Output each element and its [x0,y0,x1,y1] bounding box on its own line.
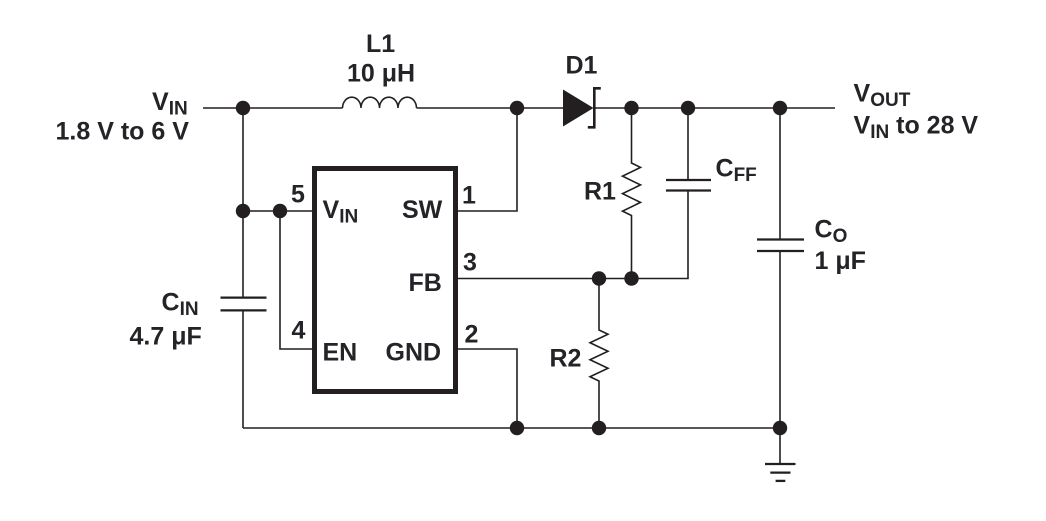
wire: CIN bottom to ground rail [242,310,244,428]
pin number 3 [463,249,477,277]
label: input voltage range [56,118,190,146]
wire: EN branch (node to pin 4) [280,211,312,349]
svg-text:1.8 V to 6 V: 1.8 V to 6 V [56,118,190,146]
label: D1 designator [566,52,598,80]
pin number 1 [462,182,476,210]
svg-text:VIN: VIN [152,88,188,120]
wire: VIN vertical drop (x=243) [242,108,244,297]
label: VIN net [152,88,188,120]
resistor R2 [590,279,608,429]
svg-text:VIN to 28 V: VIN to 28 V [854,112,979,144]
pin label: VIN (pin 5) [323,196,359,228]
ground symbol [765,428,796,481]
node: SW junction top [510,101,524,115]
label: CIN designator [162,289,199,321]
wire: pin 5 VIN stub [243,210,312,212]
pin label: GND (pin 2) [386,339,442,367]
svg-text:3: 3 [463,249,477,277]
label: CO value 1 uF [815,247,866,275]
node: pin5 junction [236,204,250,218]
wire: diode cathode to VOUT (top rail right) [594,107,835,109]
svg-text:GND: GND [386,339,442,367]
svg-text:2: 2 [465,321,479,349]
svg-text:4.7 μF: 4.7 μF [130,323,202,351]
wire: CO top to output rail [779,108,781,240]
label: R1 designator [584,178,616,206]
node: FB / R1 junction [624,271,638,285]
wire: SW node to diode anode [517,107,563,109]
label: VOUT net [854,80,911,112]
label: CIN value 4.7 uF [130,323,202,351]
label: CO designator [815,216,848,248]
wire: CO bottom to ground rail [779,251,781,428]
label: output voltage range [854,112,979,144]
svg-text:VIN: VIN [323,196,359,228]
diode D1 (Schottky) [563,88,601,127]
wire: GND pin 2 to ground rail [458,349,517,428]
label: CFF designator [716,155,757,187]
node: ground symbol junction [773,421,787,435]
wire: FB pin 3 to feedback node [458,191,688,279]
node: R1 top junction [624,101,638,115]
svg-text:VOUT: VOUT [854,80,911,112]
label: R2 designator [550,345,582,373]
node: CO top junction [773,101,787,115]
svg-text:D1: D1 [566,52,598,80]
pin number 4 [292,317,306,345]
wire: inductor to SW node [417,107,518,109]
node: R2 ground junction [592,421,606,435]
pin label: FB (pin 3) [409,269,442,297]
svg-text:EN: EN [323,339,358,367]
node: EN branch junction [273,204,287,218]
svg-text:5: 5 [291,181,305,209]
node: CFF top junction [681,101,695,115]
svg-text:1: 1 [462,182,476,210]
svg-text:10 μH: 10 μH [347,60,415,88]
inductor L1 [343,97,417,108]
resistor R1 [623,108,641,279]
wire: VIN input to inductor (top rail left) [203,107,343,109]
svg-text:FB: FB [409,269,442,297]
node: GND pin ground junction [510,421,524,435]
label: L1 designator [366,30,395,58]
wire: SW pin 1 to top rail [458,108,517,211]
capacitor CO [757,240,804,252]
svg-text:R2: R2 [550,345,582,373]
node: FB / R2 junction [592,271,606,285]
node: VIN junction top [236,101,250,115]
pin number 5 [291,181,305,209]
svg-text:1 μF: 1 μF [815,247,866,275]
label: L1 value 10 uH [347,60,415,88]
svg-text:4: 4 [292,317,306,345]
pin label: SW (pin 1) [402,196,443,224]
wire: CFF top to output rail [687,108,689,180]
capacitor CFF [666,180,711,191]
svg-text:L1: L1 [366,30,395,58]
svg-text:CIN: CIN [162,289,199,321]
pin number 2 [465,321,479,349]
IC U1 body [315,169,456,392]
svg-text:SW: SW [402,196,443,224]
pin label: EN (pin 4) [323,339,358,367]
svg-text:CFF: CFF [716,155,757,187]
svg-text:CO: CO [815,216,848,248]
capacitor CIN [221,298,267,311]
wire: ground bottom rail [243,427,780,429]
svg-text:R1: R1 [584,178,616,206]
